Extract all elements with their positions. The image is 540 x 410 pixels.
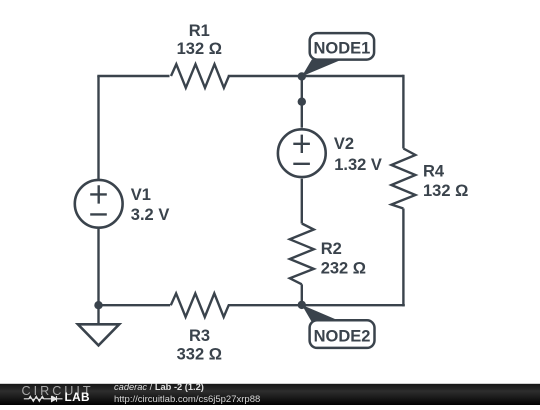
voltage source V1 (75, 180, 123, 228)
wire: left vertical from V1 bottom to bottom rail (97, 229, 99, 306)
svg-text:V1: V1 (131, 186, 151, 204)
wire: bottom rail left segment (99, 304, 171, 306)
junction dot wire joint below NODE1 (298, 98, 306, 106)
callout pointer NODE2 (302, 305, 349, 325)
wire: left vertical from top-left corner to V1 top (97, 76, 99, 179)
svg-text:232 Ω: 232 Ω (321, 259, 366, 277)
svg-text:LAB: LAB (65, 390, 90, 404)
svg-text:V2: V2 (334, 135, 354, 153)
svg-text:132 Ω: 132 Ω (423, 182, 468, 200)
footer bar (0, 384, 540, 405)
svg-text:132 Ω: 132 Ω (177, 40, 222, 58)
svg-text:R3: R3 (189, 327, 210, 345)
wire: right vertical upper segment (402, 75, 404, 149)
svg-text:1.32 V: 1.32 V (334, 156, 382, 174)
wire: bottom rail right segment (228, 304, 405, 306)
svg-text:caderac / Lab -2 (1.2): caderac / Lab -2 (1.2) (114, 382, 204, 392)
footer logo resistor-diode squiggle (24, 396, 63, 402)
svg-text:NODE1: NODE1 (313, 39, 370, 57)
wire: middle vertical V2 bottom to R2 top (301, 179, 303, 224)
voltage source V2 (278, 129, 326, 177)
junction dot node B (NODE2 at 302,305) (298, 301, 306, 309)
svg-text:http://circuitlab.com/cs6j5p27: http://circuitlab.com/cs6j5p27xrp88 (114, 394, 260, 405)
wire: top rail left segment (97, 75, 169, 77)
svg-text:R4: R4 (423, 163, 445, 181)
callout pointer NODE1 (302, 57, 349, 77)
junction dot node A (NODE1 at 302,76) (298, 72, 306, 80)
junction dot ground node (94, 301, 102, 309)
resistor R4 (391, 149, 415, 209)
callout box NODE2 (310, 320, 375, 348)
wire: right vertical lower segment (402, 209, 404, 307)
svg-text:3.2 V: 3.2 V (131, 206, 170, 224)
svg-text:NODE2: NODE2 (314, 327, 371, 345)
wire: top rail right segment (228, 75, 404, 77)
resistor R1 (171, 64, 229, 88)
svg-text:R1: R1 (189, 22, 210, 40)
resistor R2 (290, 224, 314, 285)
svg-text:332 Ω: 332 Ω (177, 345, 222, 363)
svg-text:R2: R2 (321, 240, 342, 258)
wire: middle vertical NODE1 to V2 top (301, 76, 303, 128)
ground (78, 305, 119, 345)
resistor R3 (171, 293, 229, 317)
wire: middle vertical R2 bottom to NODE2 (301, 284, 303, 305)
callout box NODE1 (310, 33, 374, 60)
